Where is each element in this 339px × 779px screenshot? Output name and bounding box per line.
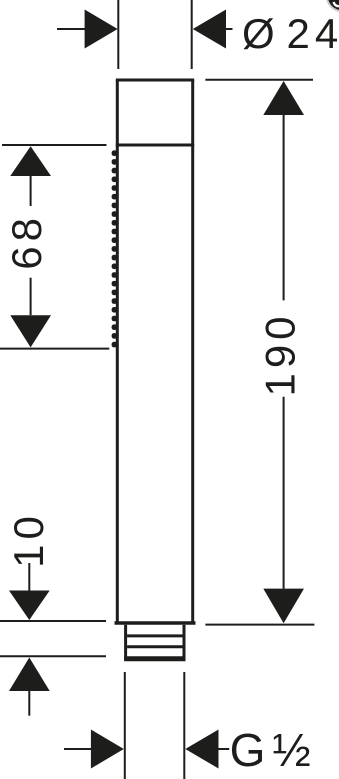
- dimension arrow 10 down (above): [9, 563, 50, 620]
- label G 1/2: [230, 724, 311, 776]
- dimension arrow G1/2 left: [64, 730, 124, 769]
- dimension arrow Ø24 left: [57, 10, 118, 49]
- thread ribs: [127, 636, 182, 647]
- svg-text:190: 190: [257, 311, 304, 396]
- svg-text:½: ½: [272, 724, 310, 776]
- extension line G1/2 right: [183, 672, 185, 779]
- label Ø 24: [242, 10, 339, 57]
- thread connector outline: [124, 625, 185, 660]
- head/handle separator line: [116, 144, 194, 147]
- extension line G1/2 left: [124, 672, 126, 779]
- svg-text:Ø: Ø: [242, 10, 275, 57]
- extension line 68 top: [2, 144, 107, 146]
- svg-text:G: G: [230, 724, 266, 776]
- dimension arrow Ø24 right: [193, 10, 233, 49]
- extension line 190 bottom: [205, 624, 314, 626]
- extension line right of Ø24: [191, 0, 193, 69]
- svg-text:10: 10: [5, 511, 52, 568]
- shower handle outline (head + body): [115, 80, 196, 623]
- svg-text:68: 68: [3, 213, 50, 270]
- knurl grip dots: [112, 150, 118, 347]
- dimension arrow 190 up: [263, 81, 304, 300]
- dimension arrow 68 down: [10, 278, 51, 348]
- extension line 190 top: [205, 79, 313, 81]
- zoom badge (top-right corner): [326, 0, 339, 12]
- dimension arrow G1/2 right: [185, 730, 229, 769]
- dimension arrow 68 up: [10, 146, 51, 206]
- extension line 68 bottom: [0, 348, 109, 350]
- dimension arrow 10 up (below): [9, 658, 50, 716]
- extension line left of Ø24: [117, 0, 119, 69]
- svg-text:24: 24: [287, 10, 339, 57]
- dimension arrow 190 down: [263, 397, 304, 623]
- extension line 10 bottom: [0, 655, 106, 657]
- extension line 10 top: [0, 620, 106, 622]
